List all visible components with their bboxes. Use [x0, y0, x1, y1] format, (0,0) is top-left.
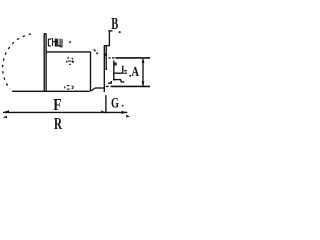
svg-text:B: B: [111, 14, 118, 33]
svg-text:F: F: [53, 95, 61, 114]
svg-text:G: G: [111, 96, 119, 112]
svg-text:R: R: [54, 114, 63, 133]
svg-text:A: A: [132, 65, 140, 80]
